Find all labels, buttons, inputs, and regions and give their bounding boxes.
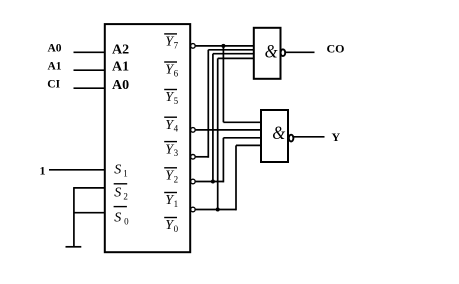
output label /Y5: [164, 90, 178, 107]
svg-text:S: S: [114, 163, 121, 178]
svg-text:A0: A0: [112, 78, 129, 93]
svg-text:1: 1: [123, 168, 128, 178]
wire /Y3 to gate U2 input 2: [196, 50, 254, 158]
svg-text:A0: A0: [48, 42, 62, 54]
output label /Y7: [164, 34, 178, 51]
pin bubble /Y4: [191, 128, 196, 133]
svg-text:A1: A1: [48, 61, 62, 73]
pin bubble /Y1: [191, 207, 196, 212]
output label /Y1: [164, 193, 178, 210]
svg-text:Y: Y: [332, 130, 341, 144]
pin label S1: [114, 163, 127, 179]
wire /Y7 down to gate U3 input 1: [223, 46, 261, 122]
output label /Y4: [164, 117, 178, 134]
wire /Y1 up to gate U2 input 4: [218, 58, 254, 209]
svg-text:1: 1: [40, 164, 46, 178]
wire A0 to pin A2: [74, 51, 105, 53]
wire tie S2-S0 to ground: [73, 187, 75, 247]
svg-text:3: 3: [174, 148, 179, 158]
svg-text:4: 4: [174, 124, 179, 134]
svg-text:2: 2: [123, 192, 128, 202]
ground: [66, 246, 82, 248]
svg-text:5: 5: [174, 96, 179, 106]
svg-text:2: 2: [174, 174, 179, 184]
pin label /S0: [114, 207, 130, 227]
pin bubble /Y3: [191, 155, 196, 160]
wire U3 output to Y: [294, 136, 325, 138]
decoder U1 body: [105, 24, 190, 252]
svg-text:CO: CO: [327, 42, 345, 56]
wire /Y4 to gate U3 input 2: [196, 129, 261, 131]
svg-text:S: S: [114, 211, 121, 226]
wire to pin /S0: [74, 212, 105, 214]
svg-text:0: 0: [174, 224, 179, 234]
pin bubble /Y2: [191, 179, 196, 184]
svg-text:&: &: [265, 42, 278, 63]
wire CI to pin A0: [74, 87, 105, 89]
wire A1 to pin A1: [74, 69, 105, 71]
output label /Y6: [164, 62, 178, 79]
nand gate U2 body: [254, 28, 281, 79]
pin bubble /Y7: [191, 44, 196, 49]
svg-text:6: 6: [174, 69, 179, 79]
svg-text:A1: A1: [112, 60, 129, 75]
svg-text:&: &: [272, 123, 285, 144]
wire /Y7 to gate U2 input 1: [196, 45, 254, 47]
svg-text:S: S: [114, 186, 121, 201]
wire U2 output to CO: [286, 51, 315, 53]
junction on /Y1 wire: [216, 208, 220, 212]
svg-text:7: 7: [174, 40, 179, 50]
junction on /Y7 wire: [221, 44, 225, 48]
wire /Y2 to gate U3 input 3: [196, 138, 261, 183]
nand gate U3 body: [261, 110, 288, 162]
output label /Y3: [164, 142, 178, 159]
nand gate U2 output bubble: [281, 49, 286, 56]
wire to pin /S2: [74, 187, 105, 189]
wire /Y2 up to gate U2 input 3: [213, 54, 254, 182]
output label /Y2: [164, 168, 178, 185]
svg-text:A2: A2: [112, 42, 129, 57]
wire 1 to pin S1: [49, 169, 105, 171]
svg-text:0: 0: [124, 216, 129, 226]
nand gate U3 output bubble: [289, 135, 294, 142]
output label /Y0: [164, 218, 178, 235]
pin label /S2: [114, 184, 128, 202]
wire /Y1 to gate U3 input 4: [196, 145, 261, 210]
junction on /Y2 wire: [211, 180, 215, 184]
svg-text:CI: CI: [47, 79, 60, 91]
svg-text:1: 1: [174, 199, 179, 209]
